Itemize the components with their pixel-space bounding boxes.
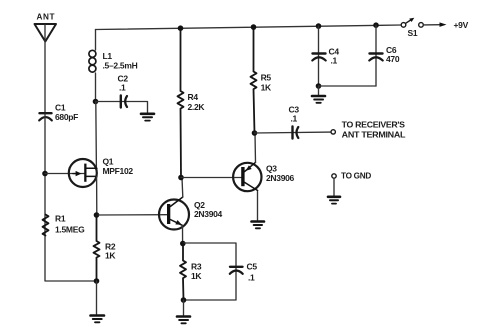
svg-text:470: 470 (386, 54, 400, 64)
node L1/C2/Q1 junction (93, 99, 99, 105)
svg-text:2.2K: 2.2K (188, 102, 206, 112)
transistor Q2 (159, 197, 189, 230)
node output terminal (331, 130, 335, 134)
svg-text:C1: C1 (55, 103, 66, 113)
wire Q1 source down (96, 176, 98, 215)
svg-text:MPF102: MPF102 (103, 166, 134, 176)
node rail C6 (373, 22, 379, 28)
node source junction (94, 212, 100, 218)
ground (R3) (177, 317, 190, 324)
svg-text:R5: R5 (261, 73, 272, 83)
wire antenna stem (44, 25, 46, 114)
svg-text:1K: 1K (105, 251, 116, 261)
wire Q2 collector up (181, 178, 184, 197)
wire junction to ground (318, 86, 320, 95)
node R5/C3 junction (252, 130, 258, 136)
capacitor C6 (369, 54, 382, 61)
svg-text:680pF: 680pF (55, 112, 78, 122)
wire junction to ground (96, 281, 98, 314)
resistor R1 (43, 215, 49, 236)
wire junction to ground (183, 300, 185, 315)
transistor Q1 (69, 159, 97, 187)
svg-text:TO GND: TO GND (341, 171, 371, 181)
capacitor C1 (39, 113, 52, 120)
svg-text:R3: R3 (191, 262, 202, 272)
svg-text:TO RECEIVER'S: TO RECEIVER'S (342, 120, 406, 130)
wire R4 junction to Q3 base (181, 177, 242, 179)
svg-text:2N3904: 2N3904 (194, 209, 223, 219)
svg-text:.1: .1 (331, 56, 338, 66)
node R4/base junction (178, 175, 184, 181)
wire junction through C2 to ground stem (96, 102, 148, 114)
svg-text:R1: R1 (55, 214, 66, 224)
svg-text:.1: .1 (119, 83, 126, 93)
antenna ANT (35, 24, 57, 42)
capacitor C2 (121, 96, 127, 108)
svg-text:.1: .1 (248, 273, 255, 283)
svg-text:1.5MEG: 1.5MEG (55, 225, 85, 235)
ground (Q3 collector) (257, 192, 259, 221)
svg-text:C5: C5 (247, 262, 258, 272)
wire Q2 emitter down (182, 225, 184, 243)
node C4/C6 junction (316, 83, 322, 89)
svg-text:R4: R4 (188, 92, 199, 102)
svg-text:L1: L1 (103, 51, 113, 61)
node gate junction (42, 171, 48, 177)
svg-text:ANT TERMINAL: ANT TERMINAL (342, 130, 406, 140)
resistor R4 (178, 28, 184, 177)
svg-text:+9V: +9V (454, 20, 469, 30)
ground (R2) (91, 316, 105, 323)
resistor R3 (180, 244, 186, 301)
wire Q3 emitter up (254, 134, 257, 163)
node R3 bottom junction (181, 297, 187, 303)
svg-text:S1: S1 (408, 28, 418, 38)
svg-text:2N3906: 2N3906 (266, 173, 295, 183)
svg-text:Q3: Q3 (266, 164, 277, 174)
wire left column C1 to bottom corner (45, 114, 97, 281)
ground (C2) (141, 114, 154, 121)
wire junction down to Q1 drain (95, 102, 98, 169)
node rail C4 (316, 23, 322, 29)
wire rail through C6 to junction wire (375, 25, 377, 86)
capacitor C4 (312, 54, 325, 61)
inductor L1 (89, 50, 96, 72)
node bottom-left junction (94, 278, 100, 284)
ground (TO GND) (328, 197, 340, 204)
wire source junction to Q2 base (97, 214, 167, 216)
wire L1 to junction (95, 73, 97, 102)
node TO GND terminal (332, 174, 336, 178)
node rail R4 (178, 25, 184, 31)
svg-text:1K: 1K (261, 83, 272, 93)
node emitter junction (180, 241, 186, 247)
node rail R5 (251, 24, 257, 30)
svg-text:.5–2.5mH: .5–2.5mH (103, 61, 138, 71)
ground (C4) (312, 96, 325, 103)
wire rail through C4 to junction (318, 26, 320, 86)
wire emitter junction through C5 branch to R3 bottom (183, 243, 236, 300)
wire rail down to L1 (95, 30, 97, 51)
wire top supply rail (96, 25, 402, 30)
capacitor C5 (230, 267, 243, 274)
switch S1 (401, 18, 423, 28)
wire terminal to ground (333, 178, 335, 195)
wire gate of Q1 (45, 173, 84, 175)
wire to +9V arrow (424, 24, 441, 26)
transistor Q3 (233, 162, 261, 191)
wire C4 junction to C6 (319, 85, 377, 87)
resistor R2 (94, 215, 100, 281)
wire junction through C3 to terminal (255, 131, 331, 134)
svg-text:.1: .1 (291, 114, 298, 124)
capacitor C3 (293, 127, 299, 139)
svg-text:1K: 1K (191, 271, 202, 281)
svg-text:ANT: ANT (37, 12, 56, 21)
resistor R5 (251, 27, 257, 133)
svg-text:Q1: Q1 (103, 157, 114, 167)
